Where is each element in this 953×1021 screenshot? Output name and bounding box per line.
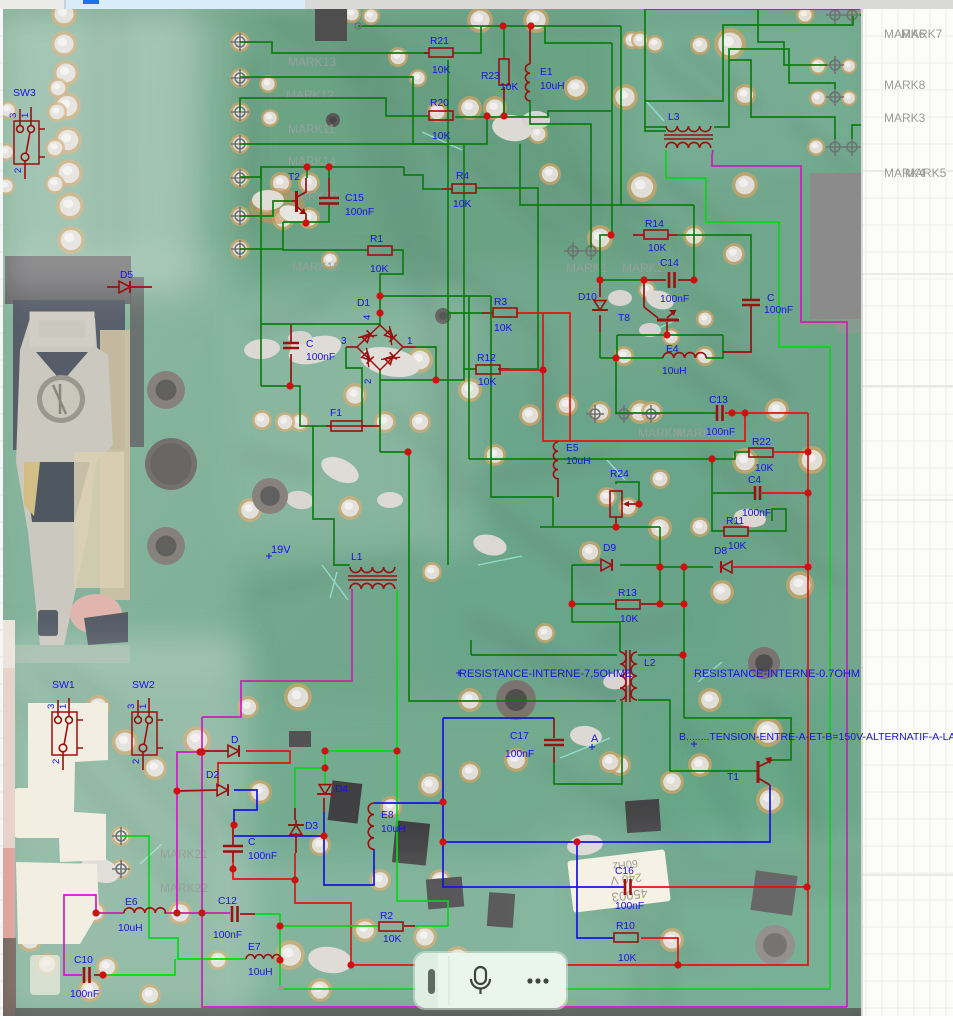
wire D1 pin4 lead [379,296,381,325]
svg-text:C16: C16 [615,866,634,877]
svg-text:10K: 10K [500,82,518,93]
resistor R23 [481,59,518,93]
wire R13 right extension [660,603,684,605]
wire y380 to R12 [380,369,476,380]
diode D9 [601,543,616,571]
svg-text:1: 1 [20,113,31,118]
wire L3 left feed [645,127,666,131]
svg-text:100nF: 100nF [70,989,99,1000]
svg-text:R20: R20 [430,98,449,109]
crosshair pads right side [826,6,861,156]
wire net R21 row [240,42,429,53]
transistor T2 [288,167,307,223]
inductor E7 [246,942,281,978]
wire red y965 left [351,964,678,966]
capacitor C13 [706,395,735,438]
wire L2 top-left rail y655 [471,654,617,656]
wire staircase S1 to L3 [645,9,860,127]
diode bridge D1 [341,298,413,384]
wire staircase S5a [729,60,835,139]
svg-text:MARK1: MARK1 [566,261,608,275]
top browser bar [0,0,953,9]
wire bright green y751 [325,750,397,752]
wire C13 red right [725,412,808,414]
wire D diode red path [218,751,290,787]
wire D8 left [660,566,713,568]
svg-text:R13: R13 [618,588,637,599]
transformer L3 [664,126,713,148]
crosshair pads middle row [586,405,660,423]
wire L3 bottom bright green [280,150,830,989]
wire staircase S4 [758,9,827,65]
svg-text:100nF: 100nF [660,294,689,305]
wire R11 right hook [748,509,786,531]
wire staircase S3 L3 right [714,49,835,127]
wire C12 right riser [240,913,255,915]
wire R24 wiper [628,503,639,505]
svg-text:R11: R11 [726,516,744,527]
svg-text:R1: R1 [370,234,383,245]
svg-text:D5: D5 [120,270,133,281]
wire node to T1 collector [684,718,791,760]
svg-text:R14: R14 [645,219,664,230]
crosshair pads left column [231,33,249,258]
wire R22 right red [774,451,808,453]
wire T2 emitter rail y222 [283,204,329,222]
wire x660 vertical [659,527,661,605]
svg-text:E5: E5 [566,443,579,454]
wire net crosshair4 y144 [240,116,487,144]
svg-text:10K: 10K [370,264,388,275]
wire blue to E8 bottom [324,836,374,885]
resistor R20 [429,98,453,142]
svg-text:100nF: 100nF [213,930,242,941]
diode D10 [578,292,608,310]
svg-text:10K: 10K [728,541,746,552]
svg-text:10K: 10K [618,953,636,964]
svg-text:RESISTANCE-INTERNE-7,5OHME: RESISTANCE-INTERNE-7,5OHME [459,668,632,680]
wire magenta E6 row [96,912,124,914]
svg-text:R12: R12 [477,353,496,364]
capacitor C14 [660,258,689,305]
resistor R14 [644,219,668,254]
wire vertical x621 [621,26,694,205]
wire blue T1 emitter rail [443,785,770,842]
svg-text:10uH: 10uH [540,81,565,92]
svg-text:10K: 10K [620,614,638,625]
resistor R4 [452,171,476,210]
wire x491 vertical [491,296,553,497]
resistor R10 [614,921,638,964]
wire y527 rail R24 bottom [552,497,554,527]
wire D8 right red [733,566,808,568]
diode D5 [107,270,152,293]
capacitor C15 [319,167,374,218]
wire x409 long vertical to L2 row [409,452,616,701]
svg-text:E7: E7 [248,942,261,953]
inductor E6 [118,897,166,934]
transistor T8 [618,307,679,324]
svg-text:2: 2 [51,759,62,764]
svg-text:MARK22: MARK22 [160,881,208,895]
svg-text:E6: E6 [125,897,138,908]
wire R3 right red loop [516,313,570,441]
wire R4 left [404,167,442,189]
wire D4 bottom blue [323,812,325,836]
inductor E8 [368,803,405,849]
wire D3 bottom red [294,853,296,879]
wire blue box C17 [443,718,625,887]
wire C13 left feed [616,358,716,413]
svg-text:MARK15: MARK15 [292,260,340,274]
svg-text:L1: L1 [351,552,363,563]
wire top rail y26 [358,25,621,27]
wire D3 blue rail y836 [234,835,324,837]
svg-text:SW1: SW1 [52,679,75,691]
wire C10 right feed [103,959,175,975]
svg-text:10uH: 10uH [381,824,406,835]
wire x464 vertical [463,144,465,370]
resistor R21 [424,36,453,76]
svg-text:RESISTANCE-INTERNE-0.7OHM: RESISTANCE-INTERNE-0.7OHM [694,668,860,680]
resistor R12 [476,353,500,388]
svg-text:3: 3 [341,336,347,347]
wire y386 to F1 [261,386,313,426]
wire x684 vertical [683,567,685,718]
svg-text:C14: C14 [660,258,679,269]
wire T8 base-emitter leads [666,322,668,335]
svg-text:C: C [306,339,314,350]
diode D4 [317,784,348,795]
svg-text:C10: C10 [74,955,93,966]
wire C16 right red [632,886,807,888]
crosshair pads E1 bottom [564,242,600,260]
svg-text:MARK2: MARK2 [622,261,664,275]
svg-text:E8: E8 [381,810,394,821]
svg-text:D2: D2 [206,770,219,781]
inductor E1 [525,64,564,101]
svg-text:10K: 10K [494,323,512,334]
wire R14 left net [600,235,644,280]
wire D1 top rail [380,295,491,297]
capacitor C4 [742,475,771,519]
svg-text:D1: D1 [357,298,370,309]
svg-text:F1: F1 [330,408,342,419]
wire L2 top-right to node [638,654,684,656]
svg-text:MARK3: MARK3 [884,111,926,125]
wire R4 right to R12 [476,188,538,369]
svg-text:10K: 10K [383,934,401,945]
wire A-box green [554,701,622,784]
wire D1 pin1 right [403,346,416,348]
svg-text:R22: R22 [752,437,771,448]
svg-text:10uH: 10uH [566,456,591,467]
wire D10 top lead [599,280,601,297]
wire S2 staircase top [645,16,853,101]
svg-text:C12: C12 [218,896,237,907]
wire R13 to L2 [572,604,620,652]
svg-text:D4: D4 [335,784,348,795]
wire magenta x177 branch [177,752,200,913]
svg-text:100nF: 100nF [306,352,335,363]
wire magenta E6 left jog [64,895,96,975]
svg-text:2: 2 [13,168,24,173]
wire E5 top lead [557,441,559,442]
wire R13 left [572,603,616,605]
svg-text:100nF: 100nF [615,901,644,912]
inductor E5 [553,442,590,479]
svg-text:2: 2 [131,759,142,764]
wire R2 left rail [280,925,379,927]
fuse F1 [326,408,366,431]
svg-text:SW2: SW2 [132,679,155,691]
resistor R3 [493,297,517,334]
wire x612 vertical [611,43,613,235]
capacitor C (100nF right) [742,293,793,316]
wire R2 right lead [404,925,415,927]
wire magenta x202 long [202,717,847,1007]
wire D3 top lead [294,808,296,820]
wire net crosshair2 to x448 [240,77,448,565]
wire y324 into D1 [261,323,380,325]
wire to R1 [283,222,368,250]
transistor T1 [727,757,772,785]
svg-text:R24: R24 [610,469,629,480]
svg-text:D8: D8 [714,546,727,557]
potentiometer R24 [610,469,629,517]
wire E8 top blue [374,802,443,804]
wire C 100nF bottom lead [290,354,292,386]
svg-text:100nF: 100nF [742,508,771,519]
svg-text:100nF: 100nF [248,851,277,862]
svg-text:R4: R4 [456,171,469,182]
node label B TENSION (placeholder) [691,741,697,747]
svg-text:1: 1 [138,704,149,709]
wire C cap bottom lead [723,305,751,352]
resistor R11 [724,516,748,552]
diode D2 [177,770,228,796]
svg-text:C: C [767,293,775,304]
wire R24 top loop [616,482,639,504]
wire E7 left feed [121,836,246,959]
wire C bottom red path [233,862,295,879]
crosshair pads lower-left [112,827,130,878]
svg-text:L3: L3 [668,112,680,123]
wire C17 leads [553,718,555,738]
wire x694 to C14 [693,205,695,280]
svg-text:MARK13: MARK13 [288,55,336,69]
wire D9 right [620,564,660,566]
svg-text:2: 2 [363,379,374,384]
diode D8 [714,546,732,573]
svg-text:C4: C4 [748,475,761,486]
svg-text:MARK8: MARK8 [884,78,926,92]
wire F1 right lead [361,425,380,427]
wire E7 right drop [279,960,281,989]
wire D4 feed [324,751,326,786]
svg-text:SW3: SW3 [13,87,36,99]
svg-text:10uH: 10uH [118,923,143,934]
wire F1 left lead to L1 [313,426,350,565]
bottom toolbar [413,951,568,1010]
wire R23 bottom lead [503,87,505,116]
inductor E4 [662,344,706,377]
right margin panel [861,9,953,1016]
svg-text:A: A [591,733,599,745]
wire E4 right riser [706,335,723,358]
wire red main vertical x808 [678,413,808,965]
svg-text:100nF: 100nF [764,305,793,316]
svg-text:MARK21: MARK21 [160,847,208,861]
diode D3 [288,820,318,853]
svg-text:R10: R10 [616,921,635,932]
white silkscreen regions (photo) [14,703,108,995]
capacitor C16 [615,866,644,912]
svg-text:1: 1 [407,336,413,347]
svg-text:10uH: 10uH [248,967,273,978]
wire blue x577 drop to R10 [577,842,614,938]
svg-text:10K: 10K [648,243,666,254]
wire D1 pin2 bottom [379,370,381,452]
capacitor C12 [213,896,242,941]
svg-text:T2: T2 [288,172,300,183]
svg-text:10K: 10K [755,463,773,474]
wire T2 collector rail y167 [240,167,404,177]
svg-text:4: 4 [362,315,373,320]
svg-text:R3: R3 [494,297,507,308]
svg-text:3: 3 [126,704,137,709]
wire L2 bottom-right to T1 base [638,700,757,771]
wire R10 right red [641,938,678,965]
svg-text:10uH: 10uH [662,366,687,377]
svg-text:MARK5: MARK5 [905,166,947,180]
wire D2 blue jog [234,790,257,825]
wire riser y26 to R14 column [545,26,612,43]
svg-text:R23: R23 [481,71,500,82]
wire x469 vertical [468,296,470,459]
left margin strip [0,0,3,1016]
wire T2 base feed [240,201,292,216]
svg-text:100nF: 100nF [505,749,534,760]
svg-text:D3: D3 [305,821,318,832]
wire R13 right [641,603,660,605]
wire x448 upper stub [447,60,449,144]
svg-text:D: D [231,735,238,746]
wire E1 bottom to crosshair [530,100,591,248]
transformer L2 [620,650,656,702]
svg-text:MARK7: MARK7 [901,27,943,41]
capacitor C (bottom) [223,825,277,862]
wire R20 right to R14 [455,111,612,117]
diode D [202,735,239,757]
wire staircase S5b [852,15,866,139]
wire x520 drop [520,144,621,205]
svg-text:R2: R2 [380,911,393,922]
switch SW3 [8,87,45,179]
svg-text:C: C [248,837,256,848]
svg-text:10K: 10K [453,199,471,210]
resistor R2 [379,911,403,945]
resistor R22 [749,437,773,474]
transformer L1 [348,552,397,589]
wire red loop left leg [543,313,745,441]
wire R3 left [448,312,482,314]
wire C4 left [712,492,754,494]
svg-text:1: 1 [58,704,69,709]
switch SW2 [126,679,163,770]
svg-text:D10: D10 [578,292,597,303]
svg-text:10K: 10K [478,377,496,388]
wire red to y965 [295,879,351,965]
svg-text:D9: D9 [603,543,616,554]
svg-text:3: 3 [46,704,57,709]
svg-text:C15: C15 [345,193,364,204]
wire E4 base rail [600,357,663,359]
capacitor C (top left) [283,339,335,363]
switch SW1 [46,679,83,770]
wire y452 junction [380,451,409,453]
wire T8 emitter rail [617,334,723,336]
svg-text:R21: R21 [430,36,449,47]
svg-text:C13: C13 [709,395,728,406]
svg-text:T8: T8 [618,313,630,324]
wire C14 leads [644,279,666,281]
svg-text:L2: L2 [644,658,656,669]
wire R1 right to D1 [380,250,403,296]
svg-text:19V: 19V [271,544,291,556]
wire net crosshair3 to R20 [240,98,429,116]
svg-text:100nF: 100nF [345,207,374,218]
capacitor C17 [505,731,564,760]
svg-text:E4: E4 [666,344,679,355]
svg-text:T1: T1 [727,772,739,783]
wire E1 top lead [529,26,531,64]
wire E5 bottom lead [557,478,559,497]
resistor R1 [368,234,392,275]
drill holes and dark components (photo) [145,9,861,965]
wire D1 pin3 to F1 right [346,346,357,348]
wire R24 bottom lead [615,517,617,527]
svg-text:MARK12: MARK12 [286,88,334,102]
wire x261 vertical [260,167,262,386]
wire C cap top lead [677,235,751,299]
metal bracket photo (left) [5,256,144,663]
resistor R13 [616,588,640,625]
svg-text:C17: C17 [510,731,529,742]
wire y459 rail [469,452,749,459]
wire R21 right riser [453,26,481,53]
svg-text:100nF: 100nF [706,427,735,438]
wire C 100nF top lead [290,324,292,343]
wire D9 left [572,564,600,566]
wire T8 collector lead [643,280,645,307]
wire magenta L3 right side [712,150,847,1007]
wire L1 bright green down [397,590,448,926]
svg-text:10K: 10K [432,65,450,76]
svg-text:MARK11: MARK11 [288,122,335,136]
wire magenta L1 loop [202,589,352,717]
svg-text:B........TENSION-ENTRE-A-ET-B=: B........TENSION-ENTRE-A-ET-B=150V-ALTER… [679,731,953,743]
wire R23 top lead [503,26,505,59]
svg-text:3: 3 [8,113,19,118]
svg-text:10K: 10K [432,131,450,142]
wire y459 to R22 junction [712,459,724,531]
capacitor C10 [70,955,99,1000]
svg-text:E1: E1 [540,67,553,78]
wire C4 right red [762,492,808,494]
wire R12 right to red [500,369,543,371]
solder smears (photo) [36,111,767,976]
